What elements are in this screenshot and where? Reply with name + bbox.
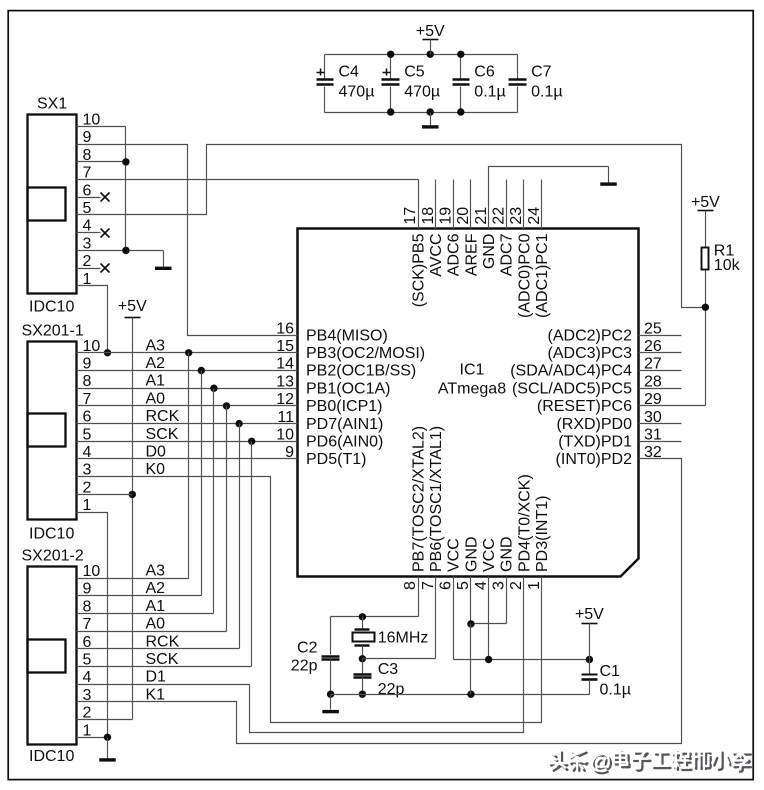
svg-text:0.1µ: 0.1µ — [474, 83, 505, 100]
svg-text:C6: C6 — [474, 63, 495, 80]
svg-text:470µ: 470µ — [339, 83, 375, 100]
svg-text:(ADC3)PC3: (ADC3)PC3 — [548, 345, 633, 362]
svg-text:PB0(ICP1): PB0(ICP1) — [306, 398, 382, 415]
svg-text:9: 9 — [83, 129, 92, 146]
svg-text:VCC: VCC — [481, 538, 498, 572]
svg-text:10: 10 — [83, 563, 101, 580]
svg-text:1: 1 — [526, 581, 543, 590]
svg-text:C7: C7 — [531, 63, 552, 80]
svg-text:21: 21 — [473, 207, 490, 225]
svg-text:+5V: +5V — [575, 606, 604, 623]
svg-text:(TXD)PD1: (TXD)PD1 — [558, 434, 632, 451]
svg-text:0.1µ: 0.1µ — [531, 83, 562, 100]
svg-text:C4: C4 — [339, 63, 360, 80]
svg-text:SCK: SCK — [146, 651, 179, 668]
svg-text:24: 24 — [526, 207, 543, 225]
svg-text:3: 3 — [490, 581, 507, 590]
svg-text:(SCL/ADC5)PC5: (SCL/ADC5)PC5 — [512, 380, 632, 397]
svg-text:IC1: IC1 — [460, 362, 485, 379]
svg-text:K0: K0 — [146, 461, 166, 478]
svg-text:PB3(OC2/MOSI): PB3(OC2/MOSI) — [306, 345, 425, 362]
svg-text:2: 2 — [83, 253, 92, 270]
svg-text:C1: C1 — [600, 663, 621, 680]
svg-text:A3: A3 — [146, 337, 166, 354]
svg-text:4: 4 — [83, 669, 92, 686]
svg-text:A0: A0 — [146, 616, 166, 633]
svg-text:K1: K1 — [146, 686, 166, 703]
svg-text:RCK: RCK — [146, 408, 180, 425]
svg-text:22: 22 — [490, 207, 507, 225]
svg-text:IDC10: IDC10 — [29, 748, 74, 765]
svg-text:4: 4 — [473, 581, 490, 590]
svg-text:ADC7: ADC7 — [499, 233, 516, 276]
svg-text:16MHz: 16MHz — [378, 629, 429, 646]
svg-text:C2: C2 — [297, 640, 318, 657]
svg-text:GND: GND — [499, 536, 516, 572]
svg-text:A2: A2 — [146, 580, 166, 597]
svg-text:ADC6: ADC6 — [446, 233, 463, 276]
svg-text:(RXD)PD0: (RXD)PD0 — [556, 416, 632, 433]
svg-text:PD5(T1): PD5(T1) — [306, 451, 366, 468]
svg-text:SX201-1: SX201-1 — [22, 323, 84, 340]
svg-text:1: 1 — [83, 497, 92, 514]
svg-text:PD7(AIN1): PD7(AIN1) — [306, 416, 383, 433]
svg-text:17: 17 — [402, 207, 419, 225]
svg-text:+5V: +5V — [416, 23, 445, 40]
svg-text:GND: GND — [481, 234, 498, 270]
svg-text:19: 19 — [438, 207, 455, 225]
svg-text:PB1(OC1A): PB1(OC1A) — [306, 380, 390, 397]
svg-text:GND: GND — [463, 536, 480, 572]
svg-text:10k: 10k — [714, 257, 741, 274]
svg-text:8: 8 — [402, 581, 419, 590]
svg-text:23: 23 — [508, 207, 525, 225]
svg-text:5: 5 — [455, 581, 472, 590]
svg-text:8: 8 — [83, 373, 92, 390]
svg-text:A1: A1 — [146, 598, 166, 615]
svg-text:(RESET)PC6: (RESET)PC6 — [537, 398, 632, 415]
svg-text:470µ: 470µ — [404, 83, 440, 100]
svg-text:SCK: SCK — [146, 426, 179, 443]
svg-text:PD3(INT1): PD3(INT1) — [534, 496, 551, 572]
svg-text:2: 2 — [83, 479, 92, 496]
svg-text:IDC10: IDC10 — [29, 299, 74, 316]
svg-text:C3: C3 — [378, 661, 399, 678]
svg-text:A0: A0 — [146, 390, 166, 407]
svg-text:A1: A1 — [146, 373, 166, 390]
svg-text:(ADC2)PC2: (ADC2)PC2 — [548, 327, 633, 344]
svg-text:(INT0)PD2: (INT0)PD2 — [556, 451, 633, 468]
svg-text:6: 6 — [83, 182, 92, 199]
svg-text:6: 6 — [438, 581, 455, 590]
svg-text:A3: A3 — [146, 563, 166, 580]
svg-text:D1: D1 — [146, 669, 167, 686]
svg-text:+5V: +5V — [118, 298, 147, 315]
svg-text:25: 25 — [644, 320, 662, 337]
svg-text:AREF: AREF — [463, 233, 480, 276]
svg-text:(SDA/ADC4)PC4: (SDA/ADC4)PC4 — [510, 363, 632, 380]
svg-text:VCC: VCC — [446, 538, 463, 572]
svg-text:13: 13 — [276, 373, 294, 390]
svg-text:7: 7 — [420, 581, 437, 590]
svg-text:(ADC0)PC0: (ADC0)PC0 — [516, 233, 533, 318]
svg-text:PD6(AIN0): PD6(AIN0) — [306, 434, 383, 451]
svg-text:C5: C5 — [404, 63, 425, 80]
svg-text:5: 5 — [83, 426, 92, 443]
svg-text:IDC10: IDC10 — [29, 525, 74, 542]
svg-text:7: 7 — [83, 616, 92, 633]
svg-text:16: 16 — [276, 320, 294, 337]
svg-text:22p: 22p — [378, 681, 405, 698]
svg-text:A2: A2 — [146, 355, 166, 372]
svg-text:2: 2 — [508, 581, 525, 590]
svg-text:PB6(TOSC1/XTAL1): PB6(TOSC1/XTAL1) — [428, 426, 445, 572]
svg-text:28: 28 — [644, 373, 662, 390]
svg-text:RCK: RCK — [146, 633, 180, 650]
svg-text:AVCC: AVCC — [428, 234, 445, 277]
svg-text:+5V: +5V — [691, 194, 720, 211]
svg-text:20: 20 — [455, 207, 472, 225]
svg-text:18: 18 — [420, 207, 437, 225]
svg-text:(SCK)PB5: (SCK)PB5 — [410, 233, 427, 307]
svg-text:PB2(OC1B/SS): PB2(OC1B/SS) — [306, 363, 416, 380]
svg-text:PB7(TOSC2/XTAL2): PB7(TOSC2/XTAL2) — [410, 426, 427, 572]
svg-text:SX1: SX1 — [37, 96, 67, 113]
svg-text:PD4(T0/XCK): PD4(T0/XCK) — [516, 474, 533, 572]
svg-text:1: 1 — [83, 722, 92, 739]
svg-text:0.1µ: 0.1µ — [600, 681, 631, 698]
svg-text:@: @ — [589, 749, 611, 774]
svg-text:(ADC1)PC1: (ADC1)PC1 — [534, 233, 551, 318]
svg-text:3: 3 — [83, 235, 92, 252]
svg-text:SX201-2: SX201-2 — [22, 548, 84, 565]
svg-text:8: 8 — [83, 598, 92, 615]
svg-text:22p: 22p — [291, 657, 318, 674]
svg-text:ATmega8: ATmega8 — [438, 381, 506, 398]
svg-text:PB4(MISO): PB4(MISO) — [306, 327, 388, 344]
